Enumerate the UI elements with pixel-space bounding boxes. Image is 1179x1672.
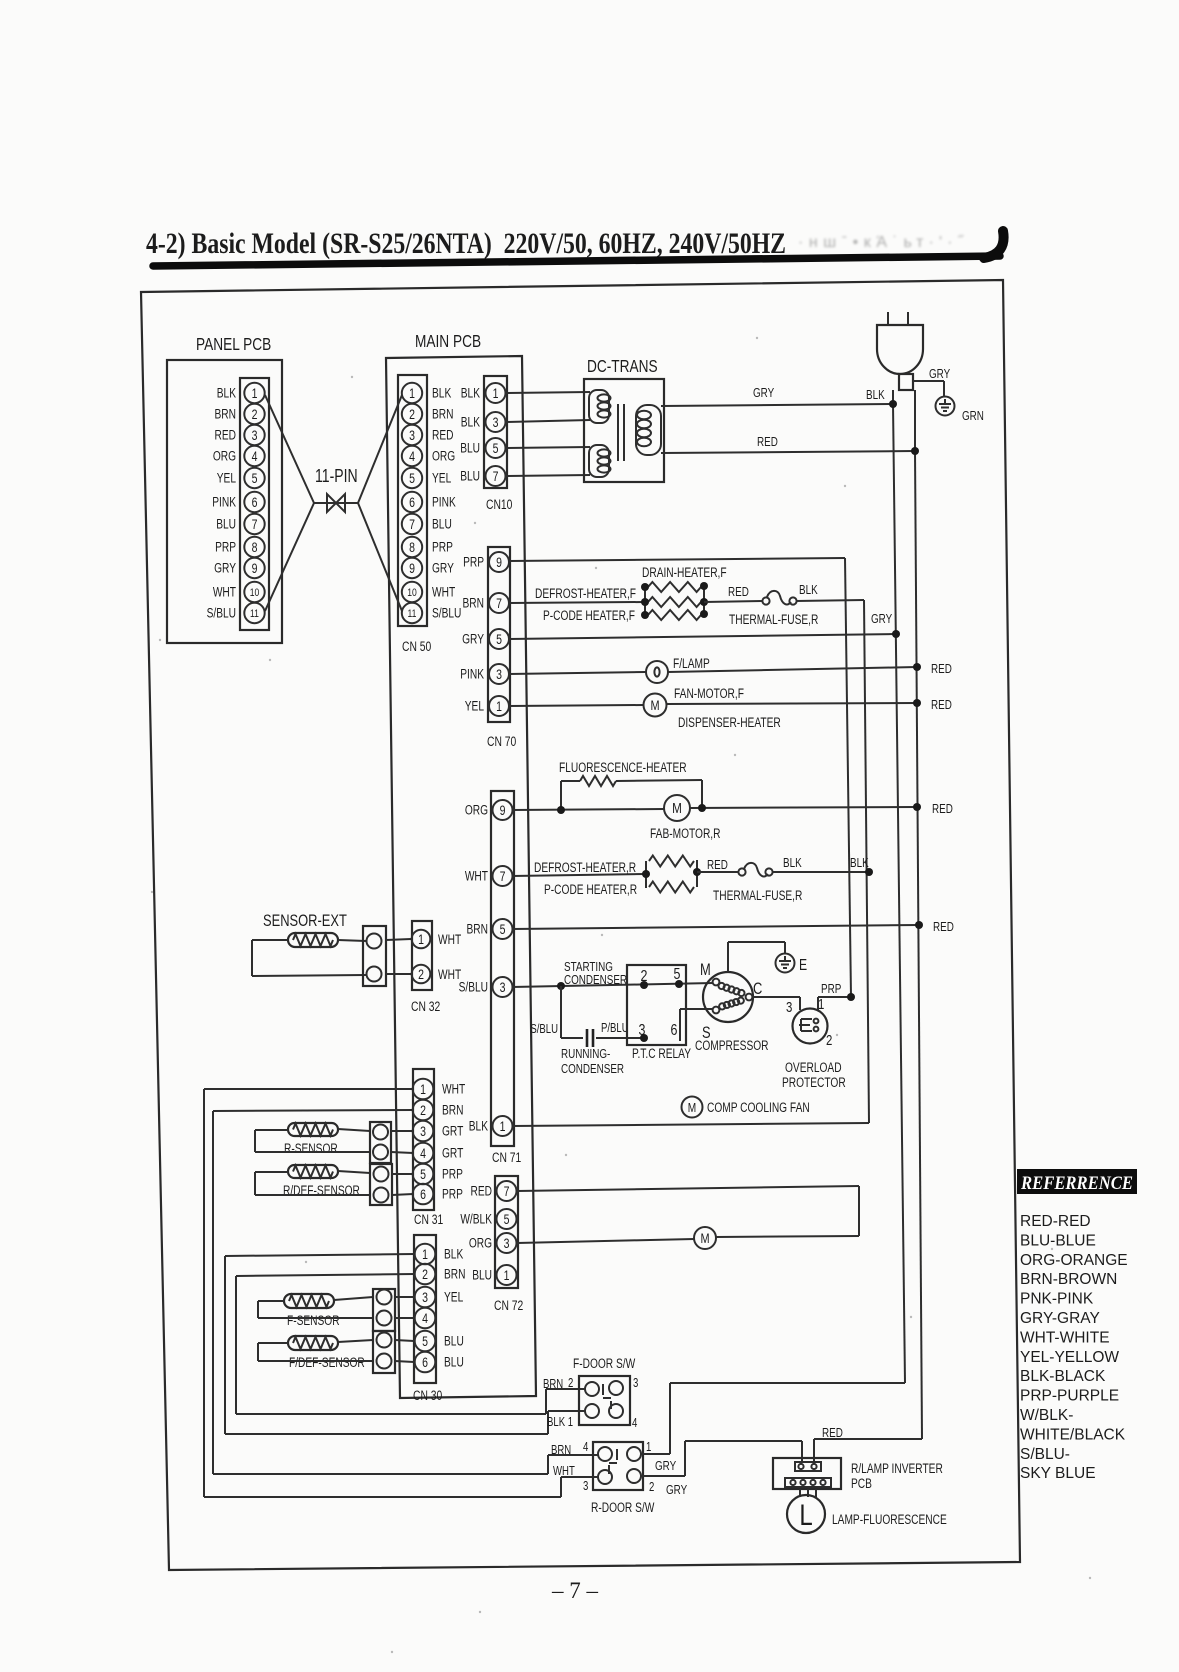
CN50 pin 4 ORG bbox=[402, 446, 455, 466]
border frame bbox=[141, 280, 1020, 1570]
wire fuse R to BLK bus bbox=[772, 871, 869, 873]
svg-text:PRP: PRP bbox=[215, 539, 236, 555]
svg-text:YEL: YEL bbox=[217, 470, 237, 486]
svg-text:1: 1 bbox=[418, 932, 424, 948]
CN50 pin 2 BRN bbox=[402, 404, 454, 424]
CN31 pin 5 PRP bbox=[413, 1164, 463, 1185]
svg-text:FLUORESCENCE-HEATER: FLUORESCENCE-HEATER bbox=[559, 760, 687, 776]
svg-text:RED: RED bbox=[931, 699, 952, 713]
svg-text:WHT: WHT bbox=[553, 1465, 575, 1479]
svg-text:3: 3 bbox=[583, 1480, 588, 1494]
wire RED CN72-7 loop bbox=[517, 1186, 859, 1237]
svg-text:6: 6 bbox=[409, 495, 415, 511]
svg-text:E: E bbox=[799, 956, 807, 974]
panel pin 10 WHT bbox=[213, 582, 265, 602]
svg-text:7: 7 bbox=[493, 469, 499, 485]
svg-text:9: 9 bbox=[252, 561, 258, 577]
svg-text:P-CODE HEATER,F: P-CODE HEATER,F bbox=[543, 608, 635, 624]
noise specks (decorative) bbox=[151, 337, 1091, 1653]
overload protector OVERLOAD PROTECTOR bbox=[782, 995, 846, 1090]
junction PRP bbox=[847, 993, 855, 1001]
connector CN70 strip bbox=[487, 547, 517, 749]
svg-text:BLK: BLK bbox=[432, 385, 451, 401]
wire CN10-7 to transformer bbox=[506, 475, 590, 476]
svg-text:WHT: WHT bbox=[442, 1081, 465, 1097]
wire GRY CN70-5 to BLK node bbox=[509, 613, 896, 639]
svg-text:3: 3 bbox=[633, 1377, 638, 1391]
main PCB box bbox=[386, 332, 536, 1398]
wire RED bus to inverter bbox=[814, 1427, 922, 1462]
lamp LAMP-FLUORESCENCE bbox=[787, 1495, 947, 1533]
svg-text:2: 2 bbox=[418, 967, 424, 983]
connector CN72 strip bbox=[494, 1176, 524, 1313]
connector CN31 strip bbox=[413, 1069, 444, 1227]
title smudge bbox=[798, 234, 965, 251]
CN30 pin 2 BRN bbox=[415, 1264, 466, 1285]
svg-text:CN 72: CN 72 bbox=[494, 1298, 524, 1314]
svg-text:9: 9 bbox=[409, 561, 415, 577]
wires connector to CN32 bbox=[386, 939, 411, 974]
svg-text:RUNNING-: RUNNING- bbox=[561, 1048, 610, 1062]
sensor F-SENSOR bbox=[284, 1294, 340, 1328]
panel pin 9 GRY bbox=[214, 558, 265, 578]
svg-text:BLU: BLU bbox=[216, 516, 236, 532]
svg-text:ORG: ORG bbox=[432, 448, 455, 464]
svg-text:BLK: BLK bbox=[469, 1118, 488, 1134]
svg-text:REFERRENCE: REFERRENCE bbox=[1020, 1173, 1133, 1194]
heater FLUORESCENCE-HEATER bbox=[559, 760, 702, 810]
svg-text:PANEL PCB: PANEL PCB bbox=[196, 335, 271, 354]
svg-text:CN 30: CN 30 bbox=[413, 1388, 443, 1404]
svg-text:8: 8 bbox=[252, 540, 258, 556]
CN31 pin 1 WHT bbox=[413, 1079, 465, 1100]
wire PRP CN70-9 to overload protector bbox=[509, 558, 851, 997]
lamp F/LAMP bbox=[509, 656, 917, 683]
CN70 pin 9 PRP bbox=[463, 552, 509, 572]
panel pin 8 PRP bbox=[215, 537, 265, 557]
svg-text:GRN: GRN bbox=[962, 410, 984, 424]
CN72 pin 7 RED bbox=[471, 1181, 517, 1201]
svg-text:COMPRESSOR: COMPRESSOR bbox=[695, 1038, 769, 1054]
F-sensor wires and connector bbox=[258, 1289, 414, 1331]
motor COMP COOLING FAN bbox=[682, 1097, 810, 1118]
svg-text:1: 1 bbox=[500, 1119, 506, 1135]
panel pin 7 BLU bbox=[216, 514, 265, 534]
wire S/BLU CN71-3 to PTC relay and compressor M bbox=[512, 983, 713, 987]
junction starting condenser bbox=[557, 982, 565, 990]
svg-text:RED: RED bbox=[757, 436, 778, 450]
svg-text:6: 6 bbox=[420, 1187, 426, 1203]
CN50 pin 3 RED bbox=[402, 425, 454, 445]
svg-text:S/BLU: S/BLU bbox=[459, 979, 488, 995]
wire BLK from plug down to door switches bbox=[893, 390, 905, 1383]
wire GRY R-door 2 to inverter bbox=[641, 1441, 802, 1476]
svg-text:RED: RED bbox=[822, 1427, 843, 1441]
svg-text:BLK: BLK bbox=[799, 584, 818, 598]
wire CN10-1 to transformer bbox=[506, 392, 590, 393]
svg-text:1: 1 bbox=[409, 386, 415, 402]
svg-text:GRY: GRY bbox=[666, 1484, 687, 1498]
inverter R/LAMP INVERTER PCB bbox=[773, 1458, 943, 1491]
svg-text:BRN: BRN bbox=[444, 1266, 465, 1282]
svg-text:5: 5 bbox=[422, 1334, 428, 1350]
svg-text:M: M bbox=[650, 698, 659, 714]
svg-text:RED: RED bbox=[931, 663, 952, 677]
svg-text:BLU: BLU bbox=[472, 1267, 492, 1283]
svg-text:BLK: BLK bbox=[217, 385, 236, 401]
svg-text:BLK-BLACK: BLK-BLACK bbox=[1020, 1368, 1106, 1385]
svg-text:DEFROST-HEATER,F: DEFROST-HEATER,F bbox=[535, 586, 636, 602]
svg-text:CN 71: CN 71 bbox=[492, 1150, 522, 1166]
CN71 pin 3 S/BLU bbox=[459, 977, 513, 997]
CN31 pin 2 BRN bbox=[413, 1100, 464, 1121]
wire overload 1 to PRP bus bbox=[818, 983, 851, 1010]
panel pin 11 S/BLU bbox=[207, 603, 265, 623]
junction RED fab motor bbox=[913, 803, 953, 817]
svg-text:OVERLOAD: OVERLOAD bbox=[785, 1060, 842, 1076]
CN50 pin 10 WHT bbox=[402, 582, 455, 602]
svg-text:WHITE/BLACK: WHITE/BLACK bbox=[1020, 1426, 1126, 1443]
svg-text:P/BLU: P/BLU bbox=[601, 1022, 629, 1036]
wire CN10-3 to transformer bbox=[506, 420, 590, 422]
svg-text:CN10: CN10 bbox=[486, 497, 513, 513]
wire RED transformer secondary bbox=[661, 436, 915, 453]
svg-text:S/BLU: S/BLU bbox=[207, 605, 236, 621]
svg-text:YEL: YEL bbox=[465, 698, 485, 714]
svg-text:LAMP-FLUORESCENCE: LAMP-FLUORESCENCE bbox=[832, 1512, 947, 1528]
svg-text:BLK: BLK bbox=[461, 414, 480, 430]
svg-text:WHT: WHT bbox=[465, 868, 488, 884]
svg-text:3: 3 bbox=[422, 1290, 428, 1306]
svg-text:3: 3 bbox=[252, 428, 258, 444]
wire BLK fuse-F to BLK bus bbox=[796, 600, 869, 1123]
svg-text:GRY-GRAY: GRY-GRAY bbox=[1020, 1310, 1100, 1327]
connector CN71 strip bbox=[491, 791, 522, 1165]
junction fab motor left bbox=[557, 806, 565, 814]
CN10 pin 3 BLK bbox=[461, 412, 506, 432]
wire RED from plug down to inverter bbox=[915, 390, 922, 1439]
svg-text:BLK: BLK bbox=[444, 1246, 463, 1262]
junction fab motor right bbox=[698, 804, 706, 812]
svg-text:THERMAL-FUSE,R: THERMAL-FUSE,R bbox=[713, 888, 803, 904]
label STARTING CONDENSER bbox=[564, 961, 627, 988]
svg-text:GRY: GRY bbox=[871, 613, 892, 627]
svg-text:F-SENSOR: F-SENSOR bbox=[287, 1313, 340, 1329]
thermal fuse F bbox=[704, 584, 819, 628]
svg-text:ORG: ORG bbox=[213, 448, 236, 464]
svg-text:1: 1 bbox=[420, 1082, 426, 1098]
CN70 pin 7 BRN bbox=[463, 593, 509, 613]
CN10 pin 1 BLK bbox=[461, 383, 506, 403]
CN30 pin 3 YEL bbox=[415, 1287, 464, 1308]
svg-text:SENSOR-EXT: SENSOR-EXT bbox=[263, 911, 347, 930]
svg-text:11: 11 bbox=[408, 608, 417, 620]
svg-text:2: 2 bbox=[420, 1103, 426, 1119]
CN31 pin 3 GRT bbox=[413, 1121, 464, 1142]
svg-text:RED: RED bbox=[215, 427, 237, 443]
heater pair DEFROST-HEATER,R / P-CODE HEATER,R bbox=[534, 856, 701, 898]
CN70 pin 1 YEL bbox=[465, 696, 509, 716]
svg-text:S/BLU-: S/BLU- bbox=[1020, 1446, 1070, 1463]
svg-text:BLU: BLU bbox=[460, 440, 480, 456]
svg-text:M: M bbox=[700, 1231, 709, 1247]
CN31 pin 6 PRP bbox=[413, 1184, 463, 1205]
page number bbox=[551, 1578, 599, 1603]
svg-text:7: 7 bbox=[500, 869, 506, 885]
svg-text:RED: RED bbox=[933, 921, 954, 935]
CN70 pin 3 PINK bbox=[460, 664, 509, 684]
wire sensor-ext to connector bbox=[338, 940, 366, 941]
svg-text:BLU: BLU bbox=[432, 516, 452, 532]
svg-text:SKY BLUE: SKY BLUE bbox=[1020, 1465, 1096, 1482]
running condenser branch bbox=[530, 986, 644, 1076]
svg-text:CN 70: CN 70 bbox=[487, 734, 517, 750]
svg-text:YEL-YELLOW: YEL-YELLOW bbox=[1020, 1349, 1119, 1366]
wire plug to ground GRY bbox=[913, 368, 950, 397]
svg-text:ORG: ORG bbox=[469, 1235, 492, 1251]
svg-text:BLU: BLU bbox=[444, 1333, 464, 1349]
wire panel pin1 to 11-PIN bbox=[265, 395, 314, 503]
panel PCB box bbox=[167, 335, 282, 643]
CN30 pin 1 BLK bbox=[415, 1244, 464, 1265]
CN71 pin 9 ORG bbox=[465, 800, 513, 820]
svg-text:9: 9 bbox=[500, 803, 506, 819]
svg-text:2: 2 bbox=[826, 1031, 832, 1048]
svg-text:10: 10 bbox=[407, 587, 417, 599]
svg-text:RED: RED bbox=[707, 859, 728, 873]
svg-text:5: 5 bbox=[493, 441, 499, 457]
svg-text:2: 2 bbox=[422, 1267, 428, 1283]
motor FAN-MOTOR,F / DISPENSER-HEATER bbox=[509, 686, 917, 731]
svg-text:5: 5 bbox=[252, 471, 258, 487]
svg-text:R/LAMP INVERTER: R/LAMP INVERTER bbox=[851, 1461, 943, 1477]
svg-text:PRP: PRP bbox=[432, 539, 453, 555]
svg-text:2: 2 bbox=[409, 407, 415, 423]
panel pin 6 PINK bbox=[212, 492, 264, 512]
svg-text:RED: RED bbox=[432, 427, 454, 443]
CN50 pin 7 BLU bbox=[402, 514, 452, 534]
junction RED BRN bbox=[915, 921, 954, 935]
svg-text:4: 4 bbox=[409, 449, 415, 465]
svg-text:GRY: GRY bbox=[214, 560, 236, 576]
CN71 pin 1 BLK bbox=[469, 1116, 513, 1136]
wire GRY R-door 1 to BLK bus bbox=[641, 1383, 905, 1454]
svg-text:S/BLU: S/BLU bbox=[432, 605, 461, 621]
svg-text:5: 5 bbox=[504, 1212, 510, 1228]
svg-text:DC-TRANS: DC-TRANS bbox=[587, 357, 658, 376]
svg-text:ORG-ORANGE: ORG-ORANGE bbox=[1020, 1252, 1128, 1269]
svg-text:CONDENSER: CONDENSER bbox=[564, 974, 627, 988]
CN50 pin 11 S/BLU bbox=[402, 603, 462, 623]
thermal fuse R bbox=[697, 857, 803, 904]
CN50 pin 8 PRP bbox=[402, 537, 453, 557]
svg-text:1: 1 bbox=[422, 1247, 428, 1263]
CN30 pin 4 bbox=[415, 1308, 436, 1329]
sensor R/DEF-SENSOR bbox=[283, 1165, 360, 1198]
wire CN10-5 to transformer bbox=[506, 447, 590, 448]
svg-text:PRP: PRP bbox=[463, 554, 484, 570]
panel pin 1 BLK bbox=[217, 383, 265, 403]
svg-text:PINK: PINK bbox=[432, 494, 456, 510]
junction RED fan motor bbox=[913, 699, 952, 713]
CN31 pin 4 GRT bbox=[413, 1143, 464, 1164]
switch F-DOOR S/W bbox=[543, 1356, 638, 1431]
svg-text:PRP: PRP bbox=[442, 1166, 463, 1182]
CN71 pin 5 BRN bbox=[467, 919, 513, 939]
panel pin 5 YEL bbox=[217, 468, 265, 488]
svg-text:BLU: BLU bbox=[444, 1354, 464, 1370]
wire panel pin11 to 11-PIN bbox=[265, 503, 314, 611]
svg-text:M: M bbox=[672, 800, 682, 817]
wire compressor M to ground E bbox=[728, 942, 785, 972]
svg-text:2: 2 bbox=[649, 1481, 654, 1495]
compressor COMPRESSOR bbox=[695, 960, 769, 1053]
svg-text:4-2) Basic Model (SR-S25/26NTA: 4-2) Basic Model (SR-S25/26NTA) 220V/50,… bbox=[146, 227, 786, 260]
svg-text:PRP: PRP bbox=[821, 983, 842, 997]
svg-text:GRT: GRT bbox=[442, 1123, 463, 1139]
CN30 pin 6 BLU bbox=[415, 1352, 464, 1373]
svg-text:FAN-MOTOR,F: FAN-MOTOR,F bbox=[674, 686, 744, 702]
svg-text:WHT: WHT bbox=[438, 932, 461, 948]
svg-text:4: 4 bbox=[632, 1417, 637, 1431]
svg-text:C: C bbox=[753, 979, 762, 998]
svg-text:BRN: BRN bbox=[215, 406, 236, 422]
CN32 pin 2 WHT bbox=[412, 965, 461, 984]
svg-text:F/LAMP: F/LAMP bbox=[673, 656, 710, 672]
connector CN10 strip bbox=[484, 376, 513, 512]
svg-text:R-DOOR S/W: R-DOOR S/W bbox=[591, 1500, 655, 1516]
panel pin 3 RED bbox=[215, 425, 265, 445]
switch R-DOOR S/W bbox=[551, 1441, 687, 1516]
svg-text:CN 50: CN 50 bbox=[402, 639, 432, 655]
svg-text:F/DEF-SENSOR: F/DEF-SENSOR bbox=[289, 1355, 365, 1371]
svg-text:3: 3 bbox=[420, 1124, 426, 1140]
svg-text:10: 10 bbox=[250, 587, 260, 599]
F/DEF-sensor wires and connector bbox=[258, 1331, 414, 1373]
svg-text:3: 3 bbox=[504, 1236, 510, 1252]
svg-text:BLU-BLUE: BLU-BLUE bbox=[1020, 1232, 1096, 1249]
svg-text:RED: RED bbox=[471, 1183, 493, 1199]
svg-text:1: 1 bbox=[493, 386, 499, 402]
svg-text:BRN: BRN bbox=[551, 1444, 571, 1458]
svg-text:COMP COOLING FAN: COMP COOLING FAN bbox=[707, 1100, 810, 1116]
CN72 pin 1 BLU bbox=[472, 1265, 516, 1285]
svg-text:ORG: ORG bbox=[465, 802, 488, 818]
svg-text:BRN: BRN bbox=[543, 1378, 563, 1392]
svg-text:BRN: BRN bbox=[463, 595, 484, 611]
sensor-ext return loop bbox=[252, 940, 366, 976]
title text bbox=[146, 227, 786, 260]
connector CN32 strip bbox=[411, 921, 441, 1014]
sensor F/DEF-SENSOR bbox=[288, 1336, 365, 1370]
svg-text:7: 7 bbox=[496, 596, 502, 612]
svg-text:GRY: GRY bbox=[462, 631, 484, 647]
wire GRY transformer secondary to BLK node bbox=[661, 387, 893, 406]
wires inverter to lamp bbox=[800, 1489, 816, 1497]
sensor R-SENSOR bbox=[284, 1123, 338, 1156]
CN30 pin 5 BLU bbox=[415, 1331, 464, 1352]
svg-text:CONDENSER: CONDENSER bbox=[561, 1063, 624, 1077]
sensor SENSOR-EXT bbox=[263, 911, 347, 947]
CN32 pin 1 WHT bbox=[412, 930, 461, 949]
svg-text:R/DEF-SENSOR: R/DEF-SENSOR bbox=[283, 1183, 360, 1199]
svg-text:DRAIN-HEATER,F: DRAIN-HEATER,F bbox=[642, 565, 727, 581]
svg-text:CN 32: CN 32 bbox=[411, 999, 441, 1015]
svg-text:BRN-BROWN: BRN-BROWN bbox=[1020, 1271, 1117, 1288]
svg-text:YEL: YEL bbox=[444, 1289, 464, 1305]
svg-text:5: 5 bbox=[409, 471, 415, 487]
CN70 pin 5 GRY bbox=[462, 629, 509, 649]
svg-text:GRY: GRY bbox=[929, 368, 950, 382]
svg-text:GRT: GRT bbox=[442, 1145, 463, 1161]
svg-text:PINK: PINK bbox=[212, 494, 236, 510]
svg-text:GRY: GRY bbox=[432, 560, 454, 576]
panel pin 2 BRN bbox=[215, 404, 265, 424]
11-PIN connector symbol bbox=[314, 466, 358, 512]
svg-text:BRN: BRN bbox=[432, 406, 453, 422]
svg-text:YEL: YEL bbox=[432, 470, 452, 486]
panel PCB connector strip bbox=[240, 378, 269, 630]
wire WHT CN71-7 to heater pair bbox=[512, 874, 646, 876]
svg-text:BLK: BLK bbox=[783, 857, 802, 871]
wire BRN CN70-7 to heater group bbox=[509, 602, 645, 603]
transformer DC-TRANS bbox=[584, 357, 664, 482]
wire BRN CN30-2 to F-door switch 2 bbox=[236, 1274, 585, 1414]
svg-text:DISPENSER-HEATER: DISPENSER-HEATER bbox=[678, 715, 781, 731]
svg-text:MAIN PCB: MAIN PCB bbox=[415, 332, 481, 351]
svg-text:5: 5 bbox=[420, 1167, 426, 1183]
connector CN30 strip bbox=[413, 1235, 443, 1403]
wire ORG CN71-9 / FAB-MOTOR,R line bbox=[512, 807, 917, 810]
svg-text:P.T.C RELAY: P.T.C RELAY bbox=[632, 1046, 691, 1062]
svg-text:BLK: BLK bbox=[850, 857, 869, 871]
CN50 pin 5 YEL bbox=[402, 468, 452, 488]
svg-text:PINK: PINK bbox=[460, 666, 484, 682]
svg-text:4: 4 bbox=[420, 1146, 426, 1162]
svg-text:3: 3 bbox=[500, 980, 506, 996]
svg-text:2: 2 bbox=[252, 407, 258, 423]
svg-text:WHT: WHT bbox=[213, 584, 236, 600]
svg-text:WHT: WHT bbox=[438, 967, 461, 983]
svg-text:RED-RED: RED-RED bbox=[1020, 1213, 1091, 1230]
svg-text:1: 1 bbox=[504, 1268, 510, 1284]
svg-text:7: 7 bbox=[409, 517, 415, 533]
legend color list bbox=[1020, 1213, 1128, 1482]
ground symbol GRN bbox=[936, 397, 984, 424]
junction RED transformer bbox=[911, 447, 919, 455]
legend REFERRENCE banner bbox=[1017, 1169, 1137, 1194]
junction BLK bus bbox=[850, 857, 873, 876]
svg-text:3: 3 bbox=[493, 415, 499, 431]
svg-text:4: 4 bbox=[252, 449, 258, 465]
svg-text:CN 31: CN 31 bbox=[414, 1212, 444, 1228]
junction BLK/GRY bbox=[889, 400, 897, 408]
CN71 pin 7 WHT bbox=[465, 866, 513, 886]
ground symbol E bbox=[776, 954, 808, 975]
R-sensor wires and connector bbox=[255, 1122, 413, 1163]
wire BRN CN31-2 to R-door switch 4 bbox=[213, 1110, 598, 1474]
svg-text:4: 4 bbox=[422, 1311, 428, 1327]
CN10 pin 7 BLU bbox=[460, 466, 505, 486]
svg-text:W/BLK: W/BLK bbox=[460, 1211, 492, 1227]
svg-text:F-DOOR S/W: F-DOOR S/W bbox=[573, 1356, 636, 1372]
svg-text:PRP-PURPLE: PRP-PURPLE bbox=[1020, 1388, 1119, 1405]
CN50 pin 1 BLK bbox=[402, 383, 451, 403]
wire 11-PIN to CN50 pin1 bbox=[358, 395, 402, 503]
svg-text:L: L bbox=[799, 1497, 812, 1531]
svg-text:WHT-WHITE: WHT-WHITE bbox=[1020, 1329, 1110, 1346]
wire WHT CN31-1 to R-door switch 3 bbox=[204, 1089, 598, 1497]
